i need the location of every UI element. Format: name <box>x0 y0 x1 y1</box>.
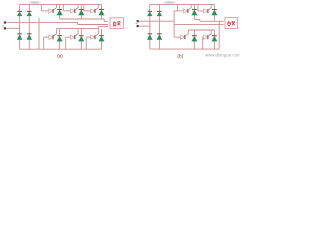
gate diagonal VT3 <box>95 4 98 10</box>
diode VD6 <box>157 11 162 16</box>
thyristor VT9 body <box>192 36 198 42</box>
gate diagonal VT9 <box>185 30 188 37</box>
svg-text:www.diangon.com: www.diangon.com <box>164 0 176 4</box>
diode VD3 <box>17 34 22 40</box>
wire gate lead VT3 <box>84 10 91 12</box>
thyristor VT10 body <box>212 36 218 42</box>
thyristor VT7 body <box>192 10 198 16</box>
wire ac line A (b) <box>139 20 174 22</box>
auxiliary diode of VT8 <box>204 9 208 13</box>
wire gate stub VT8 <box>197 4 199 10</box>
auxiliary diode of VT10 <box>204 35 208 39</box>
load box (b) <box>225 18 238 29</box>
terminal a1 (a) <box>4 21 6 23</box>
wire gate stub VT2 <box>62 4 64 10</box>
wire ac drop (a) <box>77 22 79 24</box>
auxiliary diode of VT4 <box>49 35 53 39</box>
wire load top lead (b) <box>200 20 224 22</box>
wire bottom bus (a) <box>20 48 102 50</box>
wire gate stub VT1 <box>40 4 42 10</box>
diode VD4 <box>27 34 32 40</box>
wire gate stub VT6 <box>85 37 87 49</box>
diode VD5 <box>147 11 152 16</box>
wire ac line A2 to load (a) <box>78 24 109 26</box>
wire gate lead VT2 <box>63 10 70 12</box>
wire leg 1 (a) <box>19 4 21 49</box>
wire leg2 extension (b) <box>213 20 215 22</box>
wire bottom leg VT5 <box>80 29 82 50</box>
load label (a) <box>113 21 120 26</box>
thyristor VT6 body <box>99 36 105 42</box>
wire gate lead VT4 <box>44 36 49 38</box>
wire gate lead VT6 <box>86 36 91 38</box>
auxiliary diode of VT2 <box>71 9 75 13</box>
thyristor VT8 body <box>212 10 218 16</box>
wire load top lead (a) <box>104 21 108 23</box>
wire rail R2 (b) <box>188 29 214 31</box>
wire gate stub VT4 <box>43 37 45 49</box>
diode VD8 <box>157 34 162 40</box>
svg-text:(b): (b) <box>177 53 183 58</box>
thyristor VT4 body <box>57 36 63 42</box>
wire load top corner (a) <box>103 19 105 22</box>
load label (b) <box>228 21 235 26</box>
gate diagonal VT8 <box>208 4 211 10</box>
wire leg 1 (b) <box>149 4 151 49</box>
diode VD1 <box>17 11 22 16</box>
wire ac mid vertical (b) <box>173 11 175 37</box>
wire bottom bus (b) <box>150 48 219 50</box>
wire gate stub VT3 <box>83 4 85 10</box>
wire gate stub VT7 <box>177 4 179 10</box>
thyristor VT5 body <box>78 36 84 42</box>
ac source tilde (b) <box>136 22 138 25</box>
wire load bottom riser (a) <box>98 27 100 29</box>
wire top leg VT3 <box>101 4 103 19</box>
wire leg 2 (b) <box>158 4 160 49</box>
wire bottom leg VT4 <box>59 29 61 50</box>
gate diagonal VT1 <box>53 4 56 10</box>
wire top leg VT2 <box>80 4 82 19</box>
diode VD2 <box>27 11 32 16</box>
wire gate stub VT5 <box>65 37 67 49</box>
wire ac line A (a) <box>6 21 77 23</box>
thyristor VT3 body <box>99 10 105 16</box>
wire gate lead VT9 <box>174 36 180 38</box>
terminal b2 (b) <box>137 25 139 27</box>
wire bottom leg VT6 <box>101 29 103 50</box>
wire gate lead VT1 <box>41 10 49 12</box>
wire rail R1 (b) <box>194 19 199 21</box>
gate diagonal VT7 <box>188 4 191 10</box>
wire top leg VT1 <box>59 4 61 19</box>
wire bottom leg VT10 <box>213 30 215 49</box>
thyristor VT1 body <box>57 10 63 16</box>
auxiliary diode of VT3 <box>91 9 95 13</box>
auxiliary diode of VT6 <box>91 35 95 39</box>
ac source tilde (a) <box>2 24 4 27</box>
wire gate lead VT5 <box>66 36 71 38</box>
terminal b1 (b) <box>137 20 139 22</box>
diode VD7 <box>147 34 152 40</box>
gate diagonal VT10 <box>208 30 211 37</box>
wire rail R1 (a) <box>60 18 105 20</box>
terminal a2 (a) <box>4 27 6 29</box>
gate diagonal VT2 <box>75 4 78 10</box>
thyristor VT2 body <box>78 10 84 16</box>
gate diagonal VT5 <box>75 29 78 37</box>
wire gate lead VT7 <box>174 10 184 12</box>
wire rail R2 (a) <box>56 28 98 30</box>
wire ac line to load (b) <box>174 24 223 26</box>
wire gate lead VT8 <box>198 10 204 12</box>
svg-text:www.diangon.com: www.diangon.com <box>29 0 41 4</box>
svg-text:(a): (a) <box>57 53 63 58</box>
auxiliary diode of VT7 <box>184 9 188 13</box>
svg-text:www.diangon.com: www.diangon.com <box>205 53 240 58</box>
gate diagonal VT6 <box>95 29 98 37</box>
wire load riser from bus (b) <box>218 21 220 49</box>
auxiliary diode of VT5 <box>71 35 75 39</box>
wire top leg VT8 <box>213 4 215 19</box>
wire top bus (a) <box>20 3 102 5</box>
gate diagonal VT4 <box>53 29 56 37</box>
wire load bottom lead (a) <box>99 26 108 28</box>
wire bottom leg VT9 <box>193 30 195 49</box>
auxiliary diode of VT9 <box>181 35 185 39</box>
wire ac line B (b) <box>139 25 150 27</box>
wire gate lead VT10 <box>202 36 205 38</box>
wire mid vertical (a) <box>38 18 40 50</box>
wire load top corner (b) <box>199 20 201 22</box>
wire leg 2 (a) <box>28 4 30 49</box>
wire top leg VT7 <box>193 4 195 19</box>
load box (a) <box>110 18 124 29</box>
wire ac line B (a) <box>6 27 20 29</box>
auxiliary diode of VT1 <box>49 9 53 13</box>
wire top bus (b) <box>150 3 215 5</box>
wire gate stub VT10 <box>202 37 204 49</box>
